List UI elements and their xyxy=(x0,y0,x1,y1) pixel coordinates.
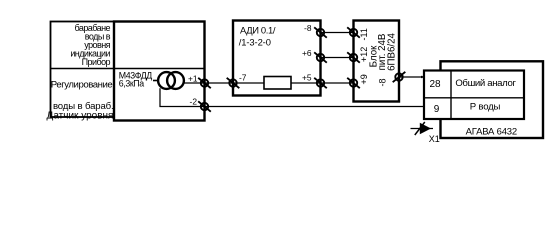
box power supply xyxy=(354,21,400,102)
connector +5 (ADI) xyxy=(314,78,327,88)
svg-text:-2: -2 xyxy=(190,96,198,106)
svg-text:6ПВ6/24: 6ПВ6/24 xyxy=(386,33,397,71)
wire +6 to +12 xyxy=(321,57,354,59)
svg-text:-7: -7 xyxy=(239,72,247,82)
wire resistor to +5 xyxy=(291,82,354,84)
wire -2 (vertical drop) xyxy=(160,88,423,106)
wire -8 to terminal 28 xyxy=(399,76,421,78)
svg-text:+9: +9 xyxy=(359,74,369,84)
svg-text:+5: +5 xyxy=(302,72,312,82)
svg-text:/1-3-2-0: /1-3-2-0 xyxy=(239,37,271,48)
svg-text:-8: -8 xyxy=(378,78,388,86)
svg-text:Обший аналог: Обший аналог xyxy=(455,78,516,89)
box B (transducer outer box) xyxy=(114,22,205,121)
svg-text:АГАВА 6432: АГАВА 6432 xyxy=(466,126,517,137)
wire -8 to -11 xyxy=(321,32,354,34)
connector -8 (PSU right) xyxy=(393,72,406,82)
svg-text:28: 28 xyxy=(429,79,441,90)
svg-text:-8: -8 xyxy=(304,23,312,33)
svg-text:X1: X1 xyxy=(429,134,440,144)
terminal table xyxy=(424,71,524,120)
svg-text:6,3кПа: 6,3кПа xyxy=(119,78,144,88)
connector -8 (ADI) xyxy=(314,27,327,37)
connector +6 (ADI) xyxy=(314,52,327,62)
box ADI xyxy=(233,21,321,96)
resistor inside ADI xyxy=(264,77,291,90)
svg-text:9: 9 xyxy=(434,104,440,115)
svg-text:Регулирование: Регулирование xyxy=(51,79,113,90)
box sensor label (left box) xyxy=(51,22,115,118)
connector +12 (PSU) xyxy=(347,52,360,62)
box AGAVA outer xyxy=(441,61,544,138)
svg-text:Прибор: Прибор xyxy=(82,57,111,67)
connector X1 arrow xyxy=(411,128,434,130)
connector +1 xyxy=(198,78,211,88)
transducer symbol (two overlapping circles) xyxy=(158,72,175,89)
svg-text:+1: +1 xyxy=(188,73,198,83)
wire +1 xyxy=(183,82,264,84)
junction dot xyxy=(421,76,423,78)
table row divider xyxy=(424,97,524,99)
connector -2 xyxy=(198,101,211,111)
connector +9 (PSU) xyxy=(347,78,360,88)
svg-text:АДИ 0.1/: АДИ 0.1/ xyxy=(240,24,276,35)
svg-text:-11: -11 xyxy=(359,28,369,40)
svg-text:+6: +6 xyxy=(302,48,312,58)
svg-text:Р воды: Р воды xyxy=(470,101,501,112)
svg-text:Датчик уровня: Датчик уровня xyxy=(47,111,114,122)
connector -7 xyxy=(227,78,240,88)
label: Прибор индикации уровня воды в барабане xyxy=(70,23,110,67)
table col divider xyxy=(450,71,452,120)
svg-text:+12: +12 xyxy=(359,47,369,62)
connector -11 (PSU) xyxy=(347,27,360,37)
divider line xyxy=(51,68,205,70)
